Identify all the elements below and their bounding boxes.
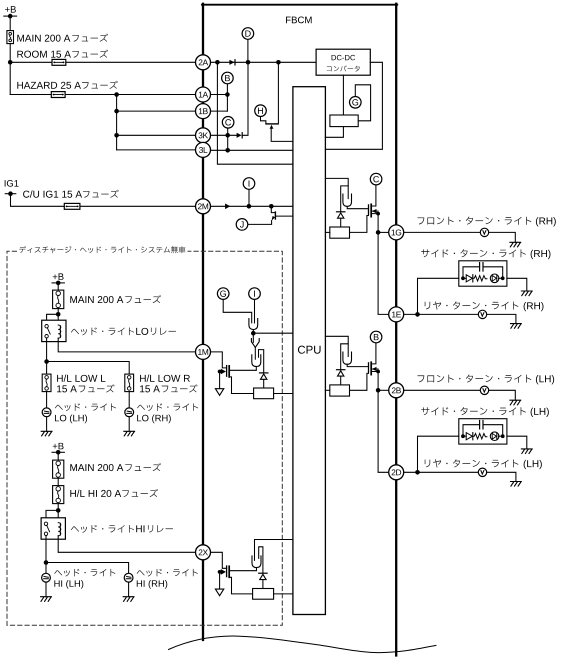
wire drain to node B bbox=[371, 343, 376, 364]
wire DC-DC right pin down to CPU bbox=[325, 62, 382, 149]
diode in side turn unit bbox=[466, 275, 472, 282]
wire R3 to CPU bbox=[274, 593, 293, 595]
wire ROOM fuse line to connector 2A bbox=[10, 61, 195, 63]
connector 1M bbox=[196, 344, 211, 359]
transistor Q2 (node J input) bbox=[236, 219, 248, 231]
MOSFET (turn C output) bbox=[368, 205, 370, 214]
zener diode (HI driver) bbox=[259, 572, 267, 574]
wire MAIN fuse to ROOM/HAZARD branch bbox=[9, 44, 11, 95]
power terminal +B (middle) bbox=[53, 273, 64, 279]
wire resistor to CPU bbox=[325, 389, 329, 391]
label headlight LO (RH) bbox=[137, 403, 198, 411]
wire B down through 1A to 1B bbox=[226, 84, 228, 111]
wire lamp to ground bbox=[128, 582, 130, 597]
wire G loop to regulator right side bbox=[355, 85, 370, 121]
MOSFET (turn B output) bbox=[368, 363, 370, 372]
label MAIN 200 A fuse (middle) bbox=[70, 296, 123, 303]
wire side unit RH to 1E line bbox=[418, 278, 459, 314]
diode on 2A line bbox=[229, 60, 234, 65]
label headlight LO relay bbox=[71, 327, 134, 335]
capacitor in side turn unit bbox=[480, 263, 483, 271]
wire CPU to gate element (turn C) bbox=[325, 178, 348, 198]
zener diode (turn B) bbox=[337, 369, 345, 371]
wire HI relay switch to HI lamps bbox=[45, 536, 47, 574]
wire to connector 3L bbox=[117, 149, 196, 151]
fuse MAIN 200 A (bottom) bbox=[53, 460, 64, 478]
label rear turn light (RH) bbox=[425, 301, 519, 309]
wire C down through 3K to 3L bbox=[227, 128, 229, 150]
wire Q2 collector from 2M line bbox=[271, 206, 275, 212]
wire regulator to CPU right edge bbox=[325, 127, 343, 138]
wire zener to resistor box bbox=[263, 380, 265, 389]
label headlight HI (LH) bbox=[54, 569, 115, 577]
resistor box R3 bbox=[253, 589, 274, 600]
node C circle bbox=[370, 173, 382, 185]
wire down to second output connector bbox=[378, 232, 388, 314]
wire A1 output, tap to CPU bbox=[252, 330, 254, 343]
fuse HAZARD 25 A bbox=[51, 92, 65, 98]
DC-DC converter U3 bbox=[316, 49, 370, 75]
ground (front turn RH) bbox=[510, 242, 521, 247]
wire zener to resistor box bbox=[262, 580, 264, 589]
wire connector 1A inner bbox=[211, 94, 228, 96]
MOSFET Q3 (low beam output) bbox=[211, 352, 226, 368]
wire +B to MAIN fuse (middle) bbox=[57, 283, 59, 290]
wire I to 2M line bbox=[248, 190, 250, 207]
wire A4 output to MOSFET gate bbox=[230, 568, 257, 571]
MOSFET Q4 (high beam output) bbox=[211, 552, 226, 568]
wire Q3 source to internal ground arrow bbox=[219, 372, 221, 389]
wire LO relay coil to connector 1M bbox=[58, 338, 195, 352]
wire +B to MAIN fuse (bottom) bbox=[57, 452, 59, 460]
label headlight LO (LH) bbox=[55, 403, 116, 411]
wire Q4 drain to resistor box bbox=[229, 577, 252, 594]
wire branch to zener bbox=[341, 344, 349, 370]
node D circle bbox=[242, 28, 254, 40]
resistor box (turn B) bbox=[330, 385, 350, 396]
ground (rear turn RH) bbox=[511, 324, 522, 329]
wire Q4 source to internal ground arrow bbox=[219, 572, 221, 589]
node B circle bbox=[370, 331, 382, 343]
label discharge headlight system bbox=[19, 246, 185, 253]
lamp headlight LO (RH) bbox=[125, 408, 134, 417]
fuse H/L HI 20 A bbox=[53, 486, 64, 504]
fuse MAIN 200 A (top) bbox=[7, 31, 14, 44]
wire lamp to ground bbox=[46, 417, 48, 432]
ground (rear turn LH) bbox=[511, 482, 522, 487]
wire R2 to CPU bbox=[274, 393, 293, 395]
lamp front turn light LH bbox=[480, 386, 488, 394]
fuse MAIN 200 A (middle) bbox=[53, 290, 64, 309]
wire side unit RH to ground bbox=[507, 278, 527, 291]
wire G input into gate bbox=[223, 300, 252, 323]
power terminal IG1 bbox=[5, 180, 19, 187]
relay: headlight HI relay K2 bbox=[41, 518, 65, 539]
wire connector 1E to rear turn light RH bbox=[404, 313, 478, 315]
label ROOM 15 A fuse bbox=[17, 51, 71, 58]
zener diode (LO driver) bbox=[260, 372, 268, 374]
connector 2M bbox=[196, 199, 211, 214]
lamp headlight HI (RH) bbox=[124, 573, 133, 582]
label HAZARD 25 A fuse bbox=[17, 82, 81, 89]
wire A3 second input to zener bbox=[259, 350, 264, 373]
FBCM module box U1 bbox=[202, 4, 397, 6]
diode in side turn unit bbox=[466, 433, 472, 440]
wire source down to output connector bbox=[377, 372, 379, 391]
wire DC-DC bottom pin to regulator bbox=[342, 75, 344, 115]
label side turn light (LH) bbox=[421, 407, 526, 415]
CPU block U2 bbox=[293, 87, 326, 615]
label H/L HI 20 A fuse bbox=[70, 490, 121, 497]
label C/U IG1 15 A fuse bbox=[23, 190, 82, 197]
wire Q1 collector from 2A line bbox=[277, 62, 279, 124]
LED lamp in side turn unit bbox=[490, 432, 499, 441]
wire lamp to ground bbox=[45, 582, 47, 597]
label MAIN 200 A fuse bbox=[17, 35, 70, 42]
wire zener to resistor box bbox=[340, 376, 342, 385]
wire HAZARD fuse line to connector 1A bbox=[10, 94, 195, 96]
label rear turn light (LH) bbox=[425, 459, 519, 467]
lamp front turn light RH bbox=[480, 228, 488, 236]
resistor box R2 bbox=[254, 388, 274, 399]
internal ground arrow (HI driver) bbox=[215, 589, 223, 596]
regulator block below DC-DC bbox=[330, 115, 358, 127]
connector 3L bbox=[196, 142, 211, 157]
wire to connector 1B bbox=[117, 110, 196, 112]
wire A4 second input to zener bbox=[259, 547, 263, 573]
wire branch from 1A line down to 1B/3K/3L bbox=[116, 95, 118, 150]
LED lamp in side turn unit bbox=[490, 274, 499, 283]
fuse C/U IG1 15 A bbox=[64, 203, 80, 209]
wire source down to output connector bbox=[377, 214, 379, 233]
ground (front turn LH) bbox=[510, 400, 521, 405]
wire branch to zener bbox=[341, 186, 349, 212]
junction node on 1A line bbox=[114, 92, 119, 97]
torn-edge wave at bottom of FBCM bbox=[169, 636, 437, 653]
node I circle (LO driver) bbox=[249, 288, 261, 300]
wire I input into gate bbox=[254, 300, 256, 323]
wire CPU to gate element (turn B) bbox=[325, 336, 348, 356]
wire A2 output to A3 bbox=[254, 347, 256, 359]
label headlight HI relay bbox=[71, 525, 134, 533]
wire side unit LH to 2D line bbox=[418, 436, 459, 472]
side turn light unit (RH) bbox=[459, 261, 507, 286]
fuse ROOM 15 A bbox=[52, 59, 66, 65]
gate element (turn C) bbox=[343, 194, 352, 206]
wire drain to node C bbox=[371, 185, 376, 206]
wire MOSFET gate pulldown to resistor bbox=[350, 372, 369, 390]
node C circle bbox=[222, 117, 234, 129]
resistor box (turn C) bbox=[330, 227, 350, 238]
ground (HI LH) bbox=[41, 597, 52, 602]
label H/L LOW R 15 A fuse bbox=[140, 375, 190, 382]
node G circle (LO driver) bbox=[217, 288, 229, 300]
label headlight HI (RH) bbox=[137, 569, 198, 577]
wire connector 2D to rear turn light LH bbox=[404, 471, 478, 473]
resistor zigzag in side turn unit bbox=[473, 434, 487, 439]
label front turn light (LH) bbox=[417, 375, 531, 383]
wire connector 3L to CPU bbox=[211, 149, 293, 151]
connector 1G bbox=[389, 225, 404, 240]
internal ground arrow (LO driver) bbox=[215, 389, 223, 396]
connector 2B bbox=[389, 383, 404, 398]
node G circle bbox=[350, 97, 362, 109]
wire D to 2A line bbox=[247, 40, 249, 63]
wire A3 output to MOSFET gate bbox=[230, 367, 256, 371]
wire connector 2A to DC-DC converter bbox=[211, 61, 316, 63]
gate element A2 bbox=[251, 339, 259, 348]
ground (HI RH) bbox=[123, 597, 134, 602]
wire Q1 emitter to CPU bbox=[271, 129, 293, 142]
label front turn light (RH) bbox=[417, 217, 531, 225]
wire LOW R fuse to LO(RH) lamp bbox=[128, 392, 130, 408]
node B circle bbox=[222, 72, 234, 84]
wire LOW L fuse to LO(LH) lamp bbox=[46, 392, 48, 408]
lamp headlight LO (LH) bbox=[42, 408, 51, 417]
power terminal +B (top) bbox=[5, 6, 16, 12]
wire +B down to MAIN fuse bbox=[9, 16, 11, 31]
connector 1E bbox=[389, 307, 404, 322]
fuse H/L LOW L 15 A bbox=[42, 374, 51, 392]
wire 2A branch down into CPU bbox=[217, 62, 293, 164]
connector 2X bbox=[196, 545, 211, 560]
zener diode (turn C) bbox=[337, 211, 345, 213]
wire HI relay coil to connector 2X bbox=[58, 536, 195, 553]
connector 1B bbox=[196, 104, 211, 119]
wire to connector 3K bbox=[117, 134, 196, 136]
label side turn light (RH) bbox=[421, 249, 526, 257]
fuse H/L LOW R 15 A bbox=[125, 374, 134, 392]
lamp rear turn light RH bbox=[478, 310, 486, 318]
ground (LO RH) bbox=[124, 431, 135, 436]
wire resistor to CPU bbox=[325, 231, 329, 233]
wire LO relay switch to LOW fuses bbox=[46, 338, 48, 374]
wire lamp to ground bbox=[128, 417, 130, 432]
connector 2D bbox=[389, 465, 404, 480]
wire side unit LH to ground bbox=[507, 436, 527, 449]
relay: headlight LO relay K1 bbox=[42, 320, 66, 341]
wire MAIN fuse to H/L HI fuse bbox=[57, 478, 59, 485]
wire IG1 to connector 2M bbox=[11, 194, 196, 207]
wire connector 2M to CPU bbox=[211, 205, 293, 207]
wire connector 3K inner with diode up to 2A line bbox=[211, 134, 237, 136]
wire zener to resistor box bbox=[340, 218, 342, 227]
gate element A1 bbox=[249, 319, 258, 330]
capacitor in side turn unit bbox=[480, 421, 483, 429]
lamp headlight HI (LH) bbox=[42, 573, 51, 582]
wire connector 2B to front turn light LH bbox=[404, 389, 480, 391]
resistor zigzag in side turn unit bbox=[473, 276, 487, 281]
wire MAIN fuse to LO relay bbox=[57, 309, 59, 325]
label MAIN 200 A fuse (bottom) bbox=[70, 464, 123, 471]
connector 1A bbox=[196, 87, 211, 102]
power terminal +B (bottom) bbox=[53, 443, 64, 449]
wire connector 1B inner bbox=[211, 110, 228, 112]
wire connector 1G to front turn light RH bbox=[404, 231, 480, 233]
wire gate output to MOSFET gate bbox=[347, 364, 368, 366]
wire H/L HI fuse to HI relay bbox=[57, 504, 59, 523]
transistor Q1 (node H driver) bbox=[255, 105, 267, 117]
dashed box: discharge headlight system (without) bbox=[7, 251, 282, 625]
lamp rear turn light LH bbox=[478, 468, 486, 476]
wire CPU to gate element A4 bbox=[255, 540, 293, 561]
node I circle bbox=[243, 178, 255, 190]
gate element A4 bbox=[252, 556, 261, 568]
wire gate output to MOSFET gate bbox=[347, 206, 368, 208]
gate element (turn B) bbox=[343, 352, 352, 364]
wire Q3 drain to resistor box bbox=[229, 377, 253, 394]
connector 2A bbox=[196, 55, 211, 70]
gate element A3 bbox=[252, 355, 261, 367]
label H/L LOW L 15 A fuse bbox=[57, 375, 105, 382]
wire Q2 emitter to CPU bbox=[276, 215, 293, 217]
connector 3K bbox=[196, 128, 211, 143]
wire down to second output connector bbox=[378, 390, 388, 472]
ground (LO LH) bbox=[41, 431, 52, 436]
wire MOSFET gate pulldown to resistor bbox=[350, 214, 369, 232]
side turn light unit (LH) bbox=[459, 419, 507, 444]
